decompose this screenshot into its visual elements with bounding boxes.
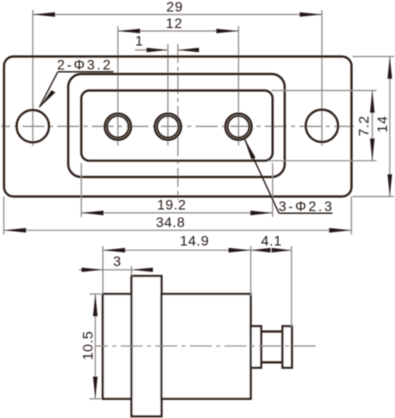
extension 7.2 bottom [268, 160, 377, 162]
side main body [162, 294, 251, 399]
dimension 14.9 [103, 232, 251, 252]
side shaft [261, 332, 282, 363]
dimension 10.5 [79, 294, 97, 399]
side flange [132, 276, 162, 416]
extension 14.9/4.1 middle [250, 246, 252, 296]
svg-text:14.9: 14.9 [180, 232, 209, 248]
extension 14 bottom [353, 196, 395, 198]
svg-text:19.2: 19.2 [157, 197, 186, 213]
part vertical centerline [177, 44, 179, 200]
dimension 34.8 [4, 214, 352, 233]
flange outline [4, 57, 352, 197]
pin1 centerline [117, 26, 119, 146]
mounting hole right [306, 110, 338, 142]
side view horizontal centerline [96, 345, 316, 347]
extension 19.2 right [272, 163, 274, 217]
shell outline [68, 74, 285, 177]
mounting hole left [17, 110, 49, 142]
left hole centerline / extension [32, 10, 34, 146]
extension 34.8 left [3, 197, 5, 235]
extension 3 right [131, 266, 133, 276]
svg-text:10.5: 10.5 [79, 331, 95, 360]
extension 34.8 right [350, 197, 352, 235]
pin 1 [105, 114, 131, 140]
dimension 12 [118, 15, 239, 33]
pin 2 [155, 114, 181, 140]
pin3 centerline [238, 26, 240, 146]
extension 10.5 top [90, 293, 102, 295]
horizontal centerline top view [1, 125, 354, 127]
leader 2-phi3.2 [39, 57, 114, 109]
dimension 4.1 [251, 232, 292, 252]
right hole centerline / extension [321, 10, 323, 146]
extension 10.5 bottom [90, 398, 102, 400]
dimension 7.2 [356, 91, 375, 161]
dimension 14 [374, 57, 392, 197]
dimension 1 [135, 33, 199, 53]
pin 3 [225, 114, 251, 140]
dimension 3 [79, 253, 154, 272]
extension 19.2 left [80, 163, 82, 217]
side collar [251, 326, 261, 368]
svg-text:1: 1 [135, 33, 143, 49]
leader 3-phi2.3 [244, 138, 334, 214]
svg-text:4.1: 4.1 [261, 232, 282, 248]
svg-text:3-Φ2.3: 3-Φ2.3 [279, 198, 335, 214]
extension 4.1 right [291, 246, 293, 327]
dimension 29 [33, 0, 322, 17]
extension 7.2 top [272, 90, 377, 92]
svg-text:12: 12 [166, 15, 183, 31]
shell opening [81, 91, 272, 161]
extension 14 top [353, 56, 395, 58]
svg-text:2-Φ3.2: 2-Φ3.2 [57, 57, 113, 73]
side rear body [103, 294, 132, 399]
side end cap [283, 326, 292, 368]
svg-text:29: 29 [166, 0, 183, 15]
pin2 centerline [167, 44, 169, 146]
svg-text:7.2: 7.2 [356, 116, 372, 137]
svg-text:14: 14 [374, 115, 390, 132]
svg-text:34.8: 34.8 [156, 214, 185, 230]
dimension 19.2 [81, 197, 272, 216]
svg-text:3: 3 [113, 253, 121, 269]
extension 14.9 left [102, 246, 104, 294]
